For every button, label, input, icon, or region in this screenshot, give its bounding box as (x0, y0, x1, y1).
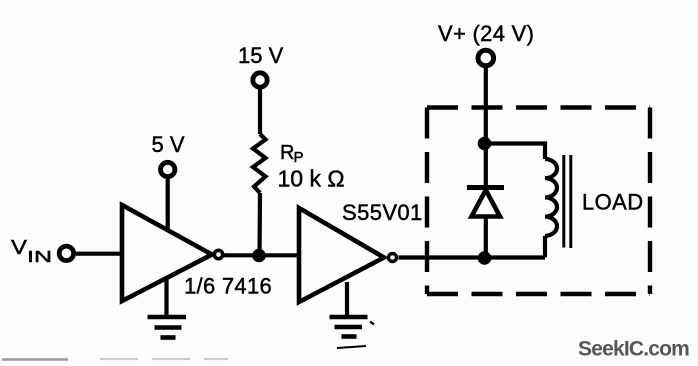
svg-text:S55V01: S55V01 (342, 200, 423, 225)
svg-text:1/6 7416: 1/6 7416 (184, 274, 272, 299)
svg-text:R: R (280, 142, 294, 164)
svg-text:15 V: 15 V (238, 43, 284, 68)
svg-text:10 k Ω: 10 k Ω (278, 166, 345, 192)
svg-text:SeekIC.com: SeekIC.com (578, 338, 689, 361)
svg-text:LOAD: LOAD (582, 190, 644, 215)
svg-text:5 V: 5 V (152, 132, 185, 157)
svg-text:V: V (11, 237, 28, 259)
svg-text:V+ (24 V): V+ (24 V) (438, 21, 534, 46)
svg-text:P: P (294, 149, 304, 166)
svg-text:IN: IN (27, 249, 52, 266)
